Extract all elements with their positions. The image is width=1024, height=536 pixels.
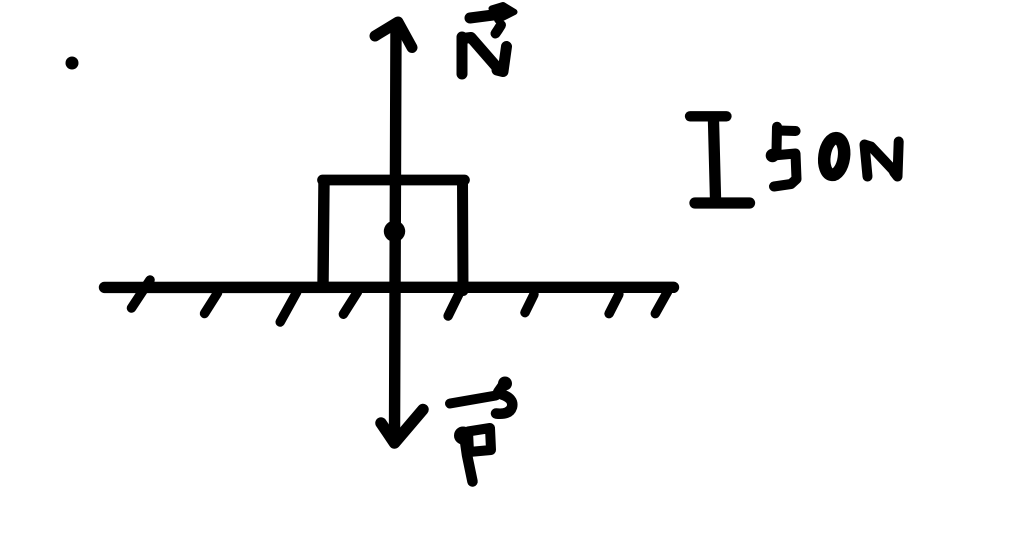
box (block resting on ground) bbox=[323, 180, 465, 291]
letter N stroke 3 bbox=[497, 47, 507, 72]
N vector arrow bar bbox=[470, 15, 497, 19]
N vector arrowhead bbox=[492, 5, 515, 21]
center dot (center of mass) bbox=[384, 221, 405, 242]
wire: main vertical force line (shaft of N and P arrows) bbox=[395, 24, 397, 436]
digit 0 bbox=[822, 137, 846, 176]
P vector arrow bar bbox=[450, 396, 496, 404]
P vector arrowhead bbox=[499, 384, 505, 393]
hatch 8 bbox=[655, 291, 667, 313]
stray dot top-left bbox=[66, 57, 79, 70]
label: P with vector arrow bbox=[450, 377, 512, 482]
hatch 5 bbox=[448, 294, 459, 316]
ground line bbox=[105, 282, 674, 294]
arrowhead: P arrow (downward) bbox=[381, 410, 423, 444]
hatch 6 bbox=[525, 294, 534, 312]
letter N stroke 1 bbox=[457, 37, 468, 74]
hatch 4 bbox=[343, 292, 357, 314]
hatch 2 bbox=[205, 293, 218, 314]
letter N of 50N bbox=[865, 145, 868, 177]
hatch 7 bbox=[609, 294, 619, 313]
letter N stroke 2 bbox=[463, 38, 498, 69]
hatch 3 bbox=[280, 292, 297, 322]
hatch 1 bbox=[132, 280, 151, 308]
label: N with vector arrow bbox=[462, 5, 515, 74]
digit 5 bbox=[772, 127, 783, 151]
scale bar (capital I) bbox=[690, 116, 750, 203]
letter P blob bbox=[454, 427, 472, 445]
letter P stem bbox=[464, 434, 473, 482]
text: 50N bbox=[766, 127, 899, 187]
letter P bowl bbox=[468, 428, 491, 452]
arrowhead: N arrow (upward) bbox=[375, 22, 412, 48]
